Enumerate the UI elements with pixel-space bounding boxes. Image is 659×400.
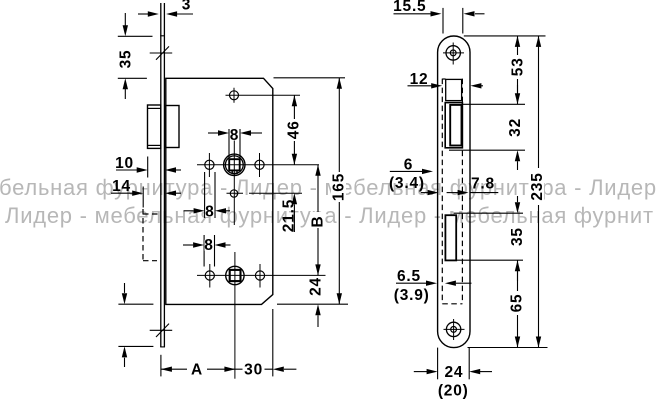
dim 8 lower-left ticks	[203, 235, 205, 267]
svg-text:Лидер - мебельная фурнитура -: Лидер - мебельная фурнитура - Лидер - ме…	[5, 203, 654, 228]
follower square 8mm	[229, 159, 240, 170]
follower centerline vertical	[233, 139, 235, 226]
faceplate top cap	[160, 35, 165, 37]
dim 12 arrows	[431, 83, 442, 88]
svg-text:10: 10	[115, 155, 134, 172]
dim 35 bottom arrows	[122, 293, 127, 304]
label 46	[286, 119, 300, 141]
dim 24 left arrow	[315, 304, 320, 315]
svg-text:35: 35	[117, 50, 134, 69]
dim 35 right arrows	[515, 202, 520, 213]
latch hole in faceplate	[446, 79, 462, 100]
faceplate bottom cap	[160, 346, 165, 348]
svg-text:8: 8	[205, 204, 214, 221]
label 35 right	[509, 227, 526, 246]
dim 35 top arrow stems	[124, 13, 126, 27]
dim 65 arrow	[515, 337, 520, 348]
dim 235 line	[538, 36, 540, 348]
upper screw hole	[230, 91, 239, 100]
dim 24-20 ticks	[437, 348, 439, 380]
dim 235 arrows	[536, 36, 541, 47]
dim 6.5 leader	[396, 282, 426, 284]
deadbolt thrown dashed outline	[143, 209, 160, 261]
lower follower centerline vertical	[234, 252, 236, 379]
dim 35 right stems	[517, 196, 519, 202]
dim 3.4 leader line	[421, 192, 428, 194]
dim 8 square ticks	[228, 129, 230, 159]
bottom edge extension	[277, 303, 348, 305]
extension deadbolt top	[454, 212, 523, 214]
dim 12 leader	[408, 85, 432, 87]
dim 6 leader	[390, 170, 423, 172]
dim 65 line	[517, 260, 519, 347]
dim 6 arrow	[422, 169, 433, 174]
left fixing hole upper	[205, 160, 214, 169]
lower follower square	[230, 270, 241, 281]
latch head	[148, 105, 161, 148]
label 235	[529, 168, 544, 205]
label 24 right	[444, 365, 464, 379]
dim 8 lower-left arrows	[193, 242, 204, 247]
dim 24-20 arrows	[427, 369, 438, 374]
svg-text:B: B	[310, 216, 327, 228]
faceplate side view right edge	[163, 3, 165, 347]
extension plate top	[464, 35, 546, 37]
dim 15.5 ticks	[442, 8, 444, 34]
label 21.5	[281, 199, 298, 232]
svg-text:21.5: 21.5	[281, 199, 298, 232]
svg-text:(20): (20)	[438, 383, 469, 400]
faceplate break mark top	[150, 52, 173, 54]
dim 7.8 arrow	[458, 190, 469, 195]
extension deadbolt bottom	[457, 259, 523, 261]
extension plate bottom	[468, 347, 548, 349]
dim 24 left stem	[317, 315, 319, 327]
small hole below follower	[230, 190, 237, 197]
lower follower hub	[226, 266, 244, 284]
dim 14 tick	[142, 187, 144, 208]
dim 3 arrow stems	[138, 13, 150, 15]
left fixing hole lower	[205, 271, 214, 280]
dim 24-20 stems	[414, 371, 428, 373]
svg-text:6.5: 6.5	[397, 268, 421, 285]
svg-text:235: 235	[529, 172, 546, 200]
extension latch top	[462, 103, 526, 105]
label 8 square	[230, 130, 239, 141]
svg-text:32: 32	[507, 118, 524, 137]
dim 32 arrow	[515, 150, 520, 161]
dim 7.8 leader	[471, 192, 499, 194]
top edge extension	[274, 77, 346, 79]
latch tail inside case	[166, 106, 179, 148]
label A	[187, 363, 207, 377]
dim 46 line	[293, 95, 295, 164]
label 24 left	[307, 277, 324, 296]
dim 32 stems	[517, 85, 519, 93]
svg-text:46: 46	[285, 120, 302, 139]
label 8 upper-left	[205, 206, 214, 217]
dim A line	[161, 368, 236, 370]
lock case hidden dashed outline	[442, 79, 462, 304]
dim 8 upper-left ticks	[204, 172, 206, 218]
svg-text:6: 6	[404, 156, 413, 173]
faceplate side view left edge	[160, 3, 162, 347]
svg-text:165: 165	[330, 173, 347, 201]
dim 35 top arrows	[123, 25, 128, 36]
dim 14 leader	[111, 192, 133, 194]
dim 21.5 arrow	[292, 193, 297, 204]
svg-text:24: 24	[444, 364, 463, 381]
dim B arrows	[315, 165, 320, 176]
svg-text:бельная фурнитура - Лидер - ме: бельная фурнитура - Лидер - мебельная фу…	[0, 175, 657, 200]
top screw hole	[446, 46, 460, 60]
dim A ticks	[160, 355, 162, 377]
dim 8 square arrows	[218, 130, 229, 135]
dim 3.4 arrow	[428, 190, 439, 195]
dim 10 arrows	[137, 167, 148, 172]
svg-text:7.8: 7.8	[471, 176, 495, 193]
dim 10 tick	[147, 157, 149, 178]
label 30	[243, 363, 265, 377]
dim 46 arrows	[292, 95, 297, 106]
svg-text:8: 8	[204, 237, 213, 254]
label 8 lower-left	[204, 240, 213, 251]
follower spindle hub	[224, 154, 245, 175]
dim 15.5 leader	[394, 13, 431, 15]
faceplate break mark bottom	[150, 329, 173, 331]
deadbolt hole in faceplate	[445, 215, 456, 260]
lower follower centerline horizontal	[197, 274, 326, 276]
svg-text:15.5: 15.5	[393, 0, 426, 15]
right fixing hole lower	[255, 271, 264, 280]
svg-text:65: 65	[508, 294, 525, 313]
svg-text:(3.4): (3.4)	[389, 175, 425, 192]
dim 15.5 arrows	[431, 11, 442, 16]
label 35 top	[117, 50, 134, 69]
dim 165 line	[338, 78, 340, 304]
dim B line	[317, 165, 319, 276]
extension latch bottom	[449, 149, 525, 151]
dim 30 line	[235, 368, 272, 370]
svg-text:12: 12	[410, 71, 429, 88]
svg-text:53: 53	[510, 57, 527, 76]
svg-text:35: 35	[509, 227, 526, 246]
label 65	[509, 291, 523, 315]
latch bolt front view	[445, 103, 462, 148]
label B	[310, 212, 324, 228]
dim 10 leader	[116, 169, 138, 171]
svg-text:A: A	[191, 362, 203, 379]
follower centerline horizontal	[197, 164, 319, 166]
right fixing hole upper	[255, 160, 264, 169]
dim 30 arrow	[273, 367, 284, 372]
dim 6.5 arrows	[426, 281, 437, 286]
label 32	[507, 118, 524, 137]
svg-text:14: 14	[112, 178, 131, 195]
label 165	[331, 172, 346, 202]
bottom screw hole	[446, 322, 460, 336]
lock case outline	[166, 78, 273, 304]
dim 53 arrows	[515, 36, 520, 47]
dim 35 bottom extensions	[118, 303, 153, 305]
label 53	[510, 55, 524, 79]
svg-text:24: 24	[307, 277, 324, 296]
dim A arrows	[161, 367, 172, 372]
dim 8 upper-left arrows	[194, 208, 205, 213]
dim 35 top extensions	[118, 35, 153, 37]
faceplate front view stadium outline	[438, 36, 470, 348]
svg-text:3: 3	[182, 0, 191, 14]
dim 165 arrows	[337, 78, 342, 89]
dim 3 arrows	[148, 11, 159, 16]
svg-text:8: 8	[230, 127, 239, 144]
dim 21.5 stem	[293, 204, 295, 232]
svg-text:30: 30	[244, 362, 263, 379]
dim 14 arrows	[132, 191, 143, 196]
svg-text:(3.9): (3.9)	[394, 287, 430, 304]
dim 53 line	[517, 36, 519, 104]
